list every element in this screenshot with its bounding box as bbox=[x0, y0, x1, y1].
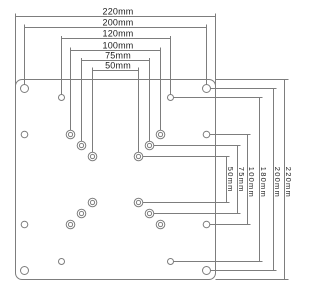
svg-text:180mm: 180mm bbox=[259, 167, 268, 198]
svg-text:220mm: 220mm bbox=[284, 167, 293, 198]
svg-text:75mm: 75mm bbox=[105, 51, 131, 61]
svg-text:220mm: 220mm bbox=[102, 7, 133, 17]
svg-text:100mm: 100mm bbox=[102, 41, 133, 51]
svg-text:75mm: 75mm bbox=[237, 167, 246, 193]
svg-text:50mm: 50mm bbox=[226, 167, 235, 193]
svg-text:200mm: 200mm bbox=[273, 167, 282, 198]
svg-text:120mm: 120mm bbox=[102, 29, 133, 39]
svg-text:50mm: 50mm bbox=[105, 61, 131, 71]
svg-text:200mm: 200mm bbox=[102, 18, 133, 28]
svg-text:100mm: 100mm bbox=[247, 167, 256, 198]
